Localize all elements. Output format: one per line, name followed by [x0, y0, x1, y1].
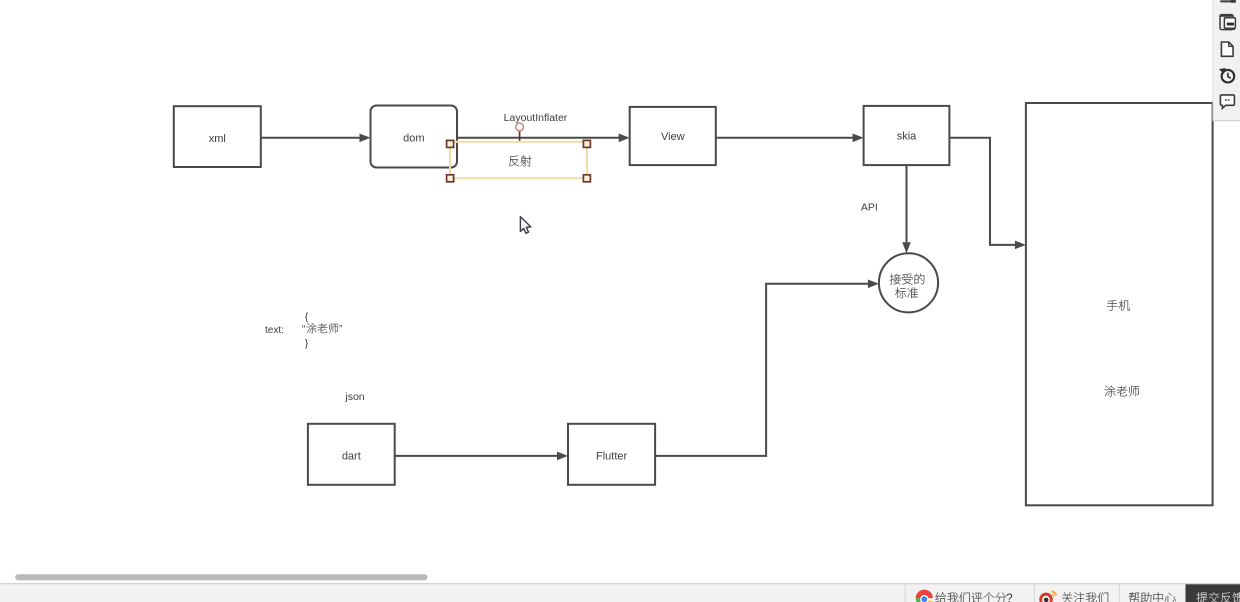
box xml — [174, 106, 261, 167]
svg-text:dart: dart — [342, 451, 361, 463]
horizontal scrollbar thumb — [15, 574, 427, 580]
box phone (large rectangle) — [1026, 103, 1213, 505]
label help center — [1129, 592, 1176, 602]
svg-text:LayoutInflater: LayoutInflater — [504, 112, 568, 124]
svg-text:?: ? — [1006, 591, 1013, 602]
chrome icon — [916, 590, 933, 602]
weibo icon — [1039, 591, 1056, 602]
svg-text:API: API — [861, 202, 878, 214]
svg-text:dom: dom — [403, 133, 424, 145]
box dom — [371, 106, 458, 168]
box dart — [308, 424, 395, 485]
toolbar icon partial (top, cut off) — [1221, 0, 1236, 3]
wire View to skia — [716, 134, 864, 143]
toolbar icon comment — [1220, 95, 1234, 108]
box skia — [864, 106, 950, 165]
wire skia to phone box — [949, 138, 1026, 249]
svg-text:skia: skia — [897, 131, 917, 143]
wire xml to dom — [261, 134, 371, 143]
svg-text:json: json — [344, 391, 364, 403]
svg-text:Flutter: Flutter — [596, 451, 628, 463]
selected text element: fanshe (reflection) with selection frame — [447, 140, 591, 181]
toolbar icon history — [1219, 68, 1234, 83]
label json — [344, 391, 364, 403]
wire dart to Flutter — [395, 452, 568, 461]
toolbar icon paste/copy-style — [1220, 14, 1235, 30]
edge label anchor circle and stub — [516, 123, 524, 141]
svg-text:”: ” — [339, 324, 342, 335]
svg-text:xml: xml — [209, 133, 226, 145]
svg-text:View: View — [661, 131, 685, 143]
submit feedback dark button — [1186, 584, 1240, 602]
toolbar icon new page — [1221, 42, 1233, 56]
label follow us — [1062, 592, 1108, 602]
label give us a rating — [935, 591, 1013, 602]
label LayoutInflater on edge — [504, 112, 568, 124]
svg-text:“: “ — [302, 324, 305, 335]
node circle: accepted standard — [879, 253, 938, 312]
label text: json snippet — [265, 312, 342, 350]
label API on edge — [861, 202, 878, 214]
right toolbar panel — [1213, 0, 1240, 121]
svg-text:text:: text: — [265, 325, 284, 336]
label shouji (phone) inside box — [1107, 300, 1130, 311]
mouse cursor — [520, 217, 530, 234]
box Flutter — [568, 424, 655, 485]
label tulaoshi inside phone box — [1105, 386, 1140, 397]
box View — [630, 107, 716, 165]
wire dom to View (LayoutInflater edge) — [457, 134, 630, 143]
wire skia down to standard circle (API edge) — [902, 165, 911, 253]
wire Flutter to standard circle — [655, 280, 879, 456]
bottom status bar — [0, 584, 1240, 602]
